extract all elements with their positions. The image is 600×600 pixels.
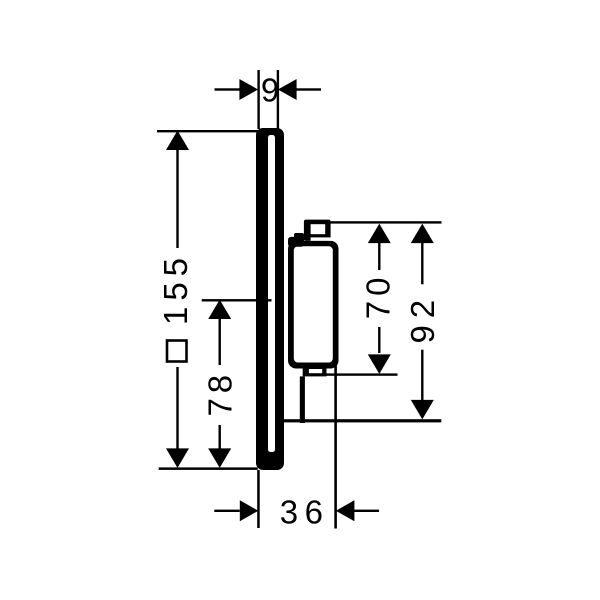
lower housing left edge [300,376,305,423]
extension line 36 left [257,470,260,528]
dimension 70 line and arrows [368,224,391,374]
svg-text:155: 155 [157,252,194,325]
extension line 9 left [257,70,259,129]
svg-text:78: 78 [201,370,238,417]
dimension 155 line and arrows [166,131,189,468]
svg-text:9: 9 [261,72,279,109]
valve body [288,233,339,369]
wall plate (side profile) [256,128,284,470]
svg-text:70: 70 [360,273,397,320]
extension line mid 78 [202,299,272,301]
dimension 36 line and arrows [214,500,379,521]
lower housing bottom line / 92 bottom extension [281,419,441,422]
dimension 9 line and arrows [215,79,322,100]
dimension 78 line and arrows [208,300,231,468]
svg-text:36: 36 [280,494,330,531]
square symbol for 155 [167,341,187,362]
handle knob [304,220,334,241]
svg-text:92: 92 [404,293,441,344]
extension line top of 70 and 92 [329,221,442,223]
extension line 9 right [277,70,279,129]
neck below body [303,369,327,377]
dimension 92 line and arrows [411,224,434,420]
extension line 36 right [334,365,337,529]
extension line top of 155 [157,130,259,132]
extension line bottom of plate [159,467,258,470]
extension line bottom of 70 [323,373,398,375]
